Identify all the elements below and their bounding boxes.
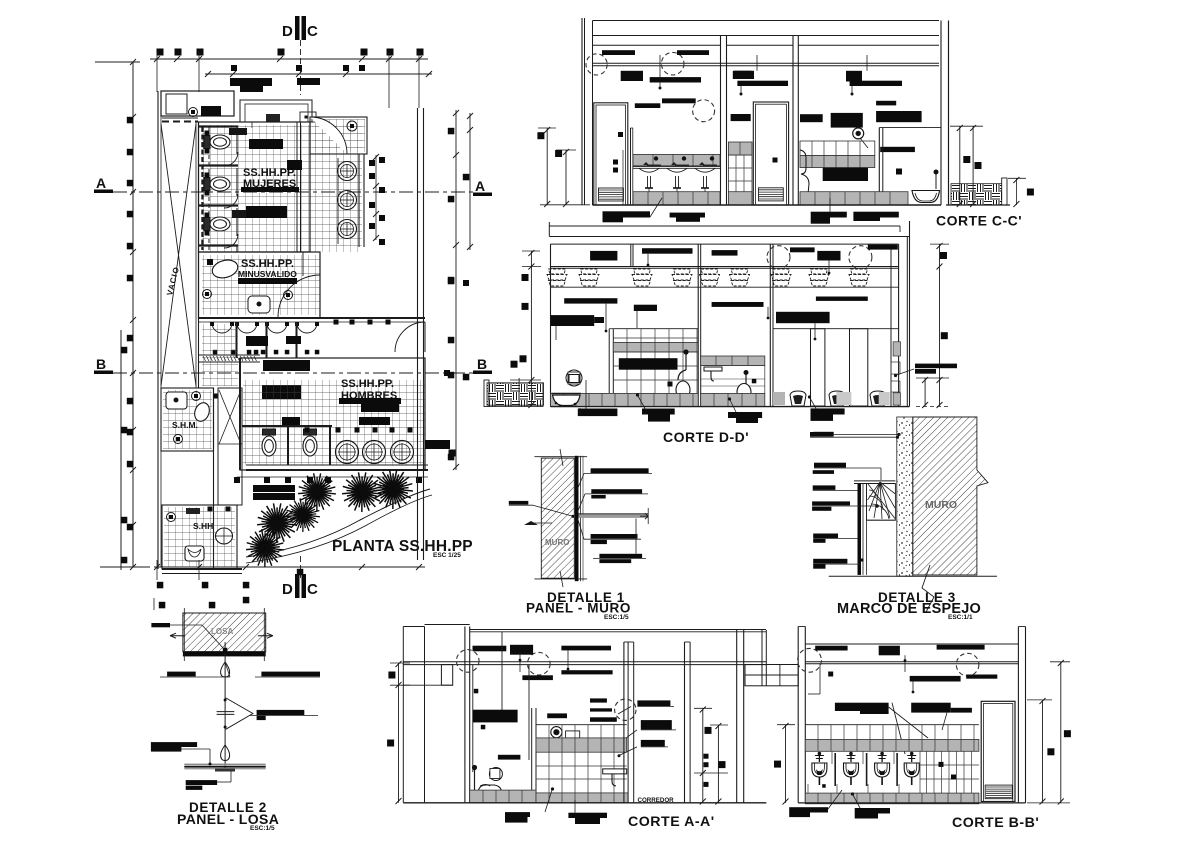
losa hatched slab [183,613,266,652]
section floor line [593,204,942,206]
tiled wall aa right room [536,724,627,726]
garden path curve [246,489,430,557]
svg-text:MINUSVALIDO: MINUSVALIDO [238,269,297,279]
svg-text:ESC:1/5: ESC:1/5 [250,825,275,832]
counter top [633,165,720,167]
louver bb [985,785,1012,799]
left dims dd [530,251,532,406]
column line right [417,108,419,560]
turnbuckle triangle [226,698,253,729]
break zigzag bottom [922,565,934,612]
partition room1 [608,329,610,407]
svg-text:LOSA: LOSA [211,627,233,636]
floor line dd [551,406,910,408]
stall partitions [199,125,238,127]
toilet aa [474,769,476,790]
svg-text:B: B [477,356,487,372]
louver grille [599,188,624,201]
dim row south [237,476,428,478]
tile wall bb [805,724,979,726]
closet left room [594,103,628,205]
hatch block [229,128,247,135]
stall front wall [236,126,238,154]
dimension line top1 [150,58,428,60]
X brace [161,124,196,386]
svg-text:CORTE A-A': CORTE A-A' [628,814,715,830]
lower tile band [633,192,720,205]
small dims right of sinks [375,155,377,240]
room1 toilet [566,370,582,386]
south wall [246,464,428,466]
tile wall right room [800,141,875,156]
small sqs bb [939,762,944,767]
right dims dd [939,244,941,406]
slab bottom thick [183,652,266,657]
right walls aa [736,630,738,803]
right wall gray blocks [893,342,900,356]
room tops [593,44,721,46]
big label bar room2 [619,358,678,370]
left dims ccc [546,128,548,205]
top bars bb [815,646,847,651]
svg-text:ESC 1/25: ESC 1/25 [433,552,461,559]
arrows [170,633,185,638]
svg-text:B: B [96,356,106,372]
mid room tile block [728,142,752,155]
center wall mujeres [296,122,298,252]
labels det2 [151,623,170,627]
trees [298,473,336,511]
toilet c-c [800,150,809,198]
labels det1 [591,468,649,473]
dimension line top2 [205,73,432,75]
round sinks [338,162,357,181]
dimension line left [132,62,134,567]
svg-text:S.H.M.: S.H.M. [172,420,198,430]
dim line right2 [469,113,471,250]
tile grid right part bb [926,751,928,793]
window sill hatch right [484,380,489,407]
lower teardrop [221,745,230,761]
top bars [590,251,617,261]
stub + beams [441,665,452,686]
SS.HH.PP. MINUSVALIDO room [202,255,320,315]
ceiling [551,266,899,268]
mirror frame [854,480,895,482]
svg-text:D: D [282,23,293,40]
outer walls [581,18,583,205]
svg-text:D: D [282,581,293,598]
dimension bottom [154,566,425,568]
stall doors row [212,323,232,333]
rooms top [551,243,899,245]
toilet room2 flush [685,353,687,370]
dashed circles [586,54,607,75]
faucets [654,156,658,160]
stippled plaster band [897,417,913,576]
dashed circles bb [798,648,822,672]
svg-text:MURO: MURO [545,538,569,547]
tick hatch band [203,356,206,361]
dashed circles aa [456,650,479,673]
bottom labels bb [789,807,828,812]
muro hatched wall [541,458,574,578]
mirror band + counter gray [633,154,720,166]
top label bars aa [473,646,507,652]
S.H.H room [162,505,237,569]
right dims ccc [959,126,961,205]
svg-text:C: C [307,23,318,40]
room3 sink [701,356,765,366]
section line D-C [300,40,302,95]
svg-text:C: C [307,581,318,598]
shaft VACIO walls [157,91,159,569]
dashed wall [162,117,198,119]
soffit line [551,286,899,288]
labels mid plan [263,360,310,371]
SS.HH.PP. MUJERES room tile floor [202,125,362,252]
panel line [184,764,265,766]
right room: shower/toilet [800,114,823,122]
beams left of bb [745,665,798,686]
corridor wall [199,317,426,319]
svg-text:ESC:1/5: ESC:1/5 [604,614,629,621]
WC toilets [204,135,230,149]
room1 bathtub [553,395,581,406]
ceiling beam aa [403,661,766,663]
outer frame [548,222,550,237]
partition ticks bb [834,753,836,786]
planter basket right [951,184,1004,205]
svg-text:A: A [96,175,106,191]
ceiling bb [805,661,1018,663]
far-left column [402,627,404,803]
hombres door arc [395,322,425,352]
svg-text:ESC:1/1: ESC:1/1 [948,614,973,621]
urinal room partitions [811,329,825,406]
svg-text:SS.HH.PP.: SS.HH.PP. [341,378,394,390]
dim line right1 [455,110,457,470]
left wall bb [797,627,799,803]
room NE with door [310,117,367,154]
label bars top [230,78,272,86]
side extension lines [183,608,185,661]
room divider walls [720,36,722,206]
muro hatched [913,417,988,575]
mid room door [753,102,788,205]
top line bb [805,643,1018,645]
urinals dd [790,391,806,406]
left label det1 [509,501,529,505]
bottom wall shh [162,568,242,570]
mid bars aa [473,710,518,723]
right wall bb [1017,627,1019,803]
fan hatch of frame section [867,484,896,521]
horizontal panel gray [579,515,649,518]
door bb [981,701,1015,801]
round wash basins [336,441,359,464]
left dim aa [398,663,400,803]
S.H.M room [161,388,214,451]
room top-left [161,91,234,116]
stall partitions vertical [236,322,238,358]
bottom labels ccc [603,211,651,217]
svg-text:S.HH: S.HH [193,521,213,531]
shower head aa [551,727,562,738]
top and bottom boundary [534,456,587,458]
WC toilets hombres [262,429,276,456]
hombres stall partition [242,425,332,427]
plumbing chase dashes [201,127,203,250]
left wall aa [464,627,466,803]
urinals bb [812,752,827,785]
svg-text:A: A [475,178,485,194]
right dims bb [1042,700,1044,803]
mid labels [564,298,617,303]
floor bb [798,802,1025,804]
fixture circle [189,108,198,117]
sink square [248,296,270,313]
right small dim [1015,178,1017,205]
ceiling line [593,62,940,64]
disabled toilet [210,257,240,280]
gray floor band rooms [551,393,699,406]
bottom labels dd [578,409,618,417]
ground line [829,575,997,577]
luminaires [547,269,567,286]
lower shaft [218,388,242,505]
section line B-B [113,372,473,374]
section line A-A [113,191,474,193]
partition [878,128,880,205]
svg-text:CORTE B-B': CORTE B-B' [952,815,1039,831]
label bar [201,106,221,116]
SS.HH.PP. HOMBRES room tile [243,380,425,465]
labels det3 [810,432,833,437]
top teardrop [221,662,230,677]
tiled wall rooms 1-2 [613,328,698,330]
hanger rod [224,642,226,768]
small basin aa [489,768,502,781]
bottom labels aa [505,812,530,817]
toilet room3 [745,374,747,385]
floor aa [403,802,766,804]
right wall [940,21,942,206]
basin aprons [639,168,659,172]
gray floor bb [805,793,979,804]
right dims aa [702,708,704,803]
vestibule walls [233,91,235,116]
top lines [425,624,470,626]
panel thick line [575,456,579,581]
svg-text:CORTE C-C': CORTE C-C' [936,213,1022,229]
tile joints urinal zone [831,751,833,764]
corridor walls [623,642,625,803]
ceiling label bars [602,50,635,55]
mid bars bb [835,703,889,711]
soap marks [643,162,649,165]
side walls [550,244,552,406]
labels right [425,440,450,449]
partition aa [531,708,533,803]
sink aa [603,769,627,774]
right labels dd [915,364,957,369]
counter wall [630,128,632,205]
dashed circles [767,246,790,269]
svg-text:MURO: MURO [925,499,957,511]
left basket planter dd [487,383,544,405]
vertical pipes aa [501,632,503,712]
corridor tiles [202,324,238,386]
mid room labels [731,114,751,121]
left dim bb [785,725,787,803]
stall door arcs [224,152,238,166]
svg-text:CORTE D-D': CORTE D-D' [663,429,749,445]
labels left room [635,103,661,108]
bathtub [912,191,940,203]
gray floor aa [470,790,536,803]
lavatory counter [337,158,339,244]
floor band right room [800,192,908,205]
